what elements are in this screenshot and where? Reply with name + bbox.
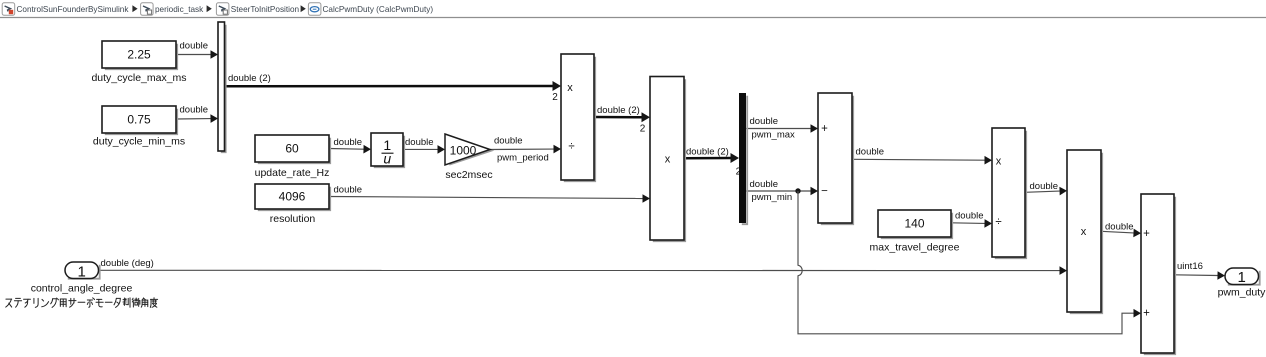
svg-text:2.25: 2.25: [127, 48, 151, 62]
svg-text:update_rate_Hz: update_rate_Hz: [255, 167, 330, 179]
svg-text:1000: 1000: [450, 144, 477, 158]
svg-text:duty_cycle_min_ms: duty_cycle_min_ms: [93, 136, 185, 148]
svg-text:x: x: [567, 82, 573, 94]
svg-text:x: x: [996, 156, 1002, 168]
svg-text:double: double: [750, 179, 779, 190]
svg-text:2: 2: [736, 167, 742, 178]
svg-text:x: x: [665, 153, 671, 165]
svg-text:pwm_min: pwm_min: [752, 192, 793, 203]
svg-text:1: 1: [1238, 269, 1246, 286]
svg-text:1: 1: [78, 263, 86, 280]
svg-text:double (deg): double (deg): [101, 258, 154, 269]
svg-text:CalcPwmDuty (CalcPwmDuty): CalcPwmDuty (CalcPwmDuty): [323, 5, 434, 14]
svg-text:double (2): double (2): [686, 146, 729, 157]
svg-text:SteerToInitPosition: SteerToInitPosition: [231, 5, 300, 14]
svg-text:0.75: 0.75: [127, 113, 151, 127]
svg-text:double: double: [856, 147, 885, 158]
svg-text:pwm_duty: pwm_duty: [1218, 287, 1266, 299]
svg-text:140: 140: [904, 217, 924, 231]
svg-text:÷: ÷: [568, 141, 574, 153]
svg-text:−: −: [821, 185, 828, 197]
svg-text:4096: 4096: [279, 190, 306, 204]
svg-text:+: +: [1143, 308, 1150, 320]
svg-text:uint16: uint16: [1177, 261, 1203, 272]
svg-text:ControlSunFounderBySimulink: ControlSunFounderBySimulink: [17, 5, 130, 14]
svg-text:double: double: [750, 116, 779, 127]
svg-text:double: double: [955, 210, 984, 221]
svg-text:double: double: [405, 137, 434, 148]
svg-text:max_travel_degree: max_travel_degree: [870, 242, 960, 254]
svg-text:u: u: [383, 151, 391, 167]
svg-text:+: +: [1143, 228, 1150, 240]
svg-text:control_angle_degree: control_angle_degree: [31, 282, 133, 294]
svg-text:60: 60: [285, 142, 299, 156]
svg-text:periodic_task: periodic_task: [155, 5, 204, 14]
svg-text:+: +: [821, 123, 828, 135]
svg-text:sec2msec: sec2msec: [445, 169, 492, 181]
svg-text:double: double: [180, 105, 209, 116]
svg-text:double (2): double (2): [228, 73, 271, 84]
svg-text:double: double: [1030, 181, 1059, 192]
svg-text:pwm_max: pwm_max: [752, 130, 796, 141]
svg-text:double (2): double (2): [597, 105, 640, 116]
svg-text:double: double: [1105, 221, 1134, 232]
svg-text:2: 2: [640, 124, 646, 135]
svg-text:resolution: resolution: [270, 213, 316, 225]
svg-text:2: 2: [552, 92, 558, 103]
svg-text:double: double: [494, 136, 523, 147]
svg-text:double: double: [180, 41, 209, 52]
svg-text:duty_cycle_max_ms: duty_cycle_max_ms: [91, 72, 186, 84]
svg-text:pwm_period: pwm_period: [497, 152, 549, 163]
svg-text:double: double: [334, 185, 363, 196]
svg-text:÷: ÷: [995, 216, 1001, 228]
svg-text:x: x: [1081, 226, 1087, 238]
svg-text:double: double: [334, 137, 363, 148]
